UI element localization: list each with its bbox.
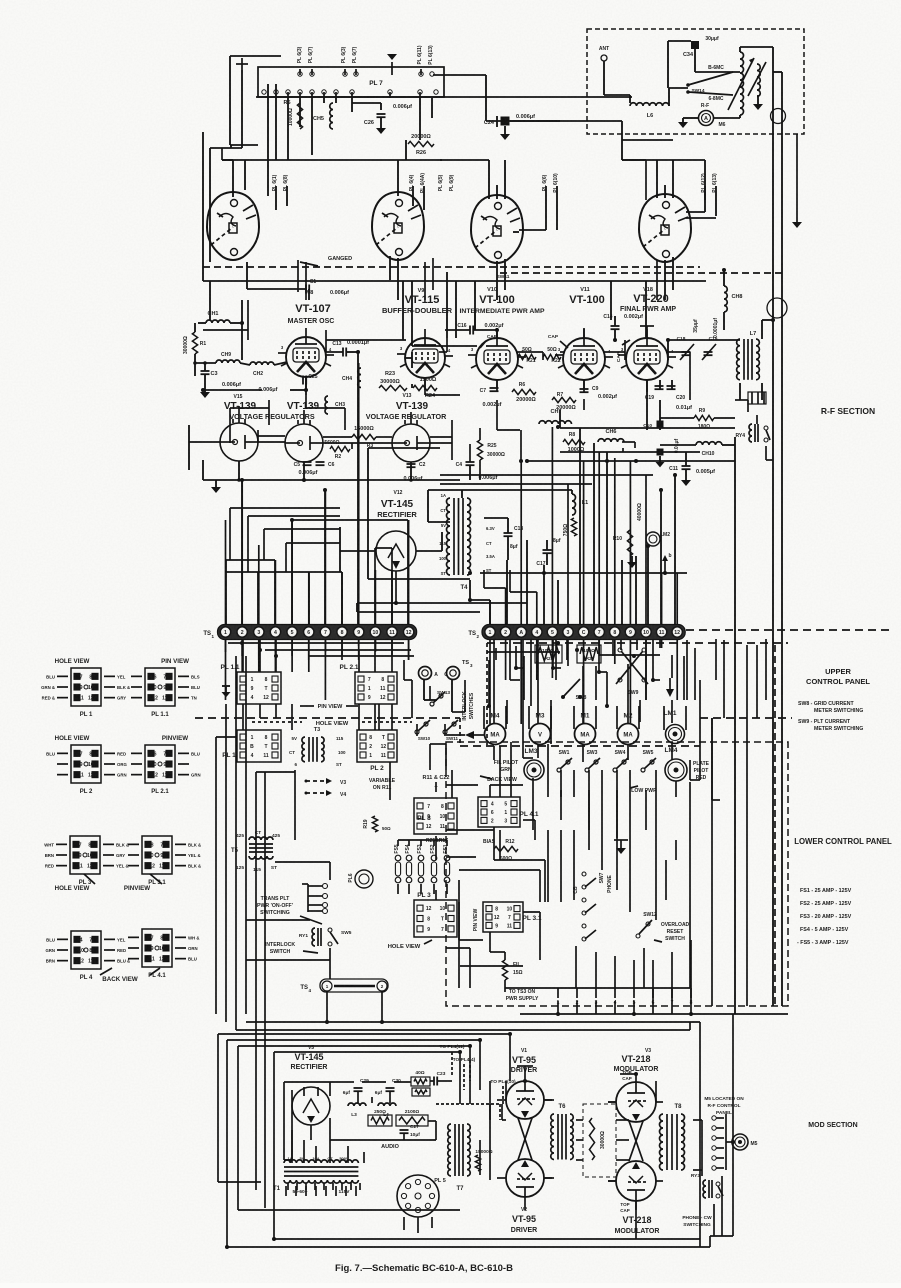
- connector PL4 back view: [71, 931, 101, 969]
- ground mid right: [627, 556, 637, 568]
- wire mod left buses: [218, 1014, 246, 1247]
- pin ticks PL7: [288, 92, 420, 98]
- label INTERLOCK SWITCH: [265, 942, 318, 955]
- wire L7 region: [668, 320, 773, 400]
- wire PL7 drops: [288, 98, 432, 160]
- pin ticks PL7 top: [300, 69, 421, 75]
- resistor R19: [372, 816, 377, 832]
- lamp LM4: [665, 759, 687, 781]
- wire horiz y572: [226, 571, 342, 573]
- tube V11 VT-100: [563, 338, 605, 380]
- wire lower panel links: [459, 812, 535, 988]
- label 0.01uf top: [676, 405, 692, 411]
- capacitor C7: [490, 387, 499, 389]
- label TOP CAP V4: [620, 1202, 630, 1213]
- label VT-95 top: [512, 1055, 536, 1065]
- resistor R12 500: [494, 846, 518, 851]
- dashed arrows V3 V4: [305, 778, 347, 798]
- wire mod t1 primary: [286, 1186, 356, 1196]
- resistor R26 20000: [408, 141, 434, 146]
- label CAP v18: [616, 340, 630, 362]
- wire bus y573: [480, 572, 687, 574]
- tube V12 VT-145: [376, 531, 416, 571]
- label TO TS3 ON PWR SUPPLY: [506, 989, 539, 1002]
- connector PL2.1 panel: [355, 672, 397, 704]
- label VOLTAGE REGULATOR: [366, 412, 447, 421]
- connector PL1 hole view: [71, 668, 101, 706]
- label 0.0001uf vertical: [713, 318, 719, 338]
- tube V18 stubs: [618, 326, 676, 392]
- meter M2: [618, 724, 639, 745]
- label VT-100 first: [479, 294, 514, 306]
- wire right mid col: [711, 718, 713, 1006]
- leader lines PL3 views: [84, 874, 162, 975]
- wire mod right bus: [710, 1014, 748, 1247]
- coil L7 tank: [737, 339, 740, 380]
- tube V1V2 hourglass: [518, 1118, 532, 1160]
- ground right coil: [753, 95, 763, 110]
- capacitor C1 0.006uf: [305, 285, 307, 294]
- resistor R13 30000: [589, 1118, 594, 1160]
- switch SW11b: [443, 730, 447, 734]
- label R-F SECTION: [821, 406, 875, 416]
- variable coupling coil: [757, 64, 760, 97]
- label HOLE VIEW dashed: [252, 721, 412, 727]
- wire C1: [247, 262, 309, 300]
- wire control left verticals: [216, 656, 265, 1208]
- resistor R9 180: [694, 415, 714, 420]
- transformer T7: [448, 1124, 451, 1176]
- wire right bus A: [772, 72, 774, 1006]
- wire long mid verticals: [507, 475, 675, 624]
- wire bus y643: [228, 643, 414, 656]
- label V1: [521, 1048, 527, 1054]
- transformer T4: [447, 498, 450, 575]
- switch SW5b: [641, 768, 645, 772]
- capacitor C24 0.006uf: [501, 117, 510, 126]
- wire rf right area: [647, 380, 735, 466]
- wire wafer4 feed: [622, 140, 673, 198]
- label V3: [645, 1048, 651, 1054]
- label PLATE PILOT RED: [693, 761, 710, 781]
- connector PL3.1 pin view: [142, 836, 172, 874]
- label V15: [234, 394, 243, 400]
- capacitor C11 0.005uf: [682, 465, 691, 467]
- wire cp net: [243, 640, 392, 672]
- junction dots 2: [240, 598, 735, 1144]
- wire rf top right: [611, 140, 673, 281]
- capacitor C16 0.002uf: [469, 326, 471, 335]
- wire TS2 feed bends: [484, 570, 537, 592]
- label V18: [643, 287, 653, 293]
- terminal TS3: [419, 667, 432, 680]
- switch SW9 cross: [618, 648, 622, 652]
- choke CH3: [325, 396, 328, 414]
- label V5: [308, 1045, 314, 1051]
- wire mod bus y1030: [236, 1022, 700, 1247]
- tube V8 stubs: [278, 345, 334, 389]
- wire bus y281 drops: [203, 132, 646, 346]
- connector PL1.1 pin view: [145, 668, 175, 706]
- label PIN VIEW PL1.1: [161, 658, 189, 665]
- label VARIABLE ON R11: [369, 778, 396, 791]
- connector PL2 panel: [357, 730, 397, 762]
- wire y97 long run: [256, 96, 632, 98]
- connector PL3 panel: [414, 900, 457, 937]
- resistor R23 30000: [379, 385, 407, 390]
- wire V12 leads: [340, 527, 442, 572]
- ground lower panel: [614, 840, 628, 854]
- wire mod horizontals: [284, 1081, 452, 1160]
- choke CH7: [539, 421, 572, 424]
- capacitor C5: [303, 461, 312, 463]
- label SW9 note: [798, 719, 863, 732]
- label INTERMEDIATE PWR AMP: [460, 308, 545, 315]
- label PL6(4) pair: [409, 173, 426, 210]
- resistor R3 15000: [352, 434, 376, 439]
- wire L6 to switch: [669, 88, 688, 106]
- wire mod left turns: [218, 1052, 710, 1247]
- panel divider dash line: [195, 717, 460, 719]
- transformer T1: [284, 1160, 358, 1163]
- transformer T6: [551, 1114, 554, 1160]
- label MODULATOR bottom: [615, 1228, 660, 1235]
- relay contacts mod: [712, 1116, 716, 1120]
- terminal strip TS2: [482, 625, 685, 640]
- capacitor C4: [466, 461, 475, 463]
- wire cp mid grid2: [243, 660, 465, 730]
- meter M3: [530, 724, 551, 745]
- transformer T8: [660, 1114, 664, 1170]
- wire C3 top: [203, 361, 207, 371]
- tube V18 VT-220: [626, 338, 668, 380]
- wire under TS2 bus: [487, 652, 660, 655]
- wire reg drop TS1: [240, 478, 244, 624]
- wire mod top feeds: [558, 1001, 691, 1014]
- arrow junction: [666, 678, 674, 697]
- ground C9b: [656, 456, 665, 467]
- label BACK VIEW PL4: [102, 976, 138, 983]
- wire meters feeds: [494, 639, 672, 724]
- wire meter area horiz: [446, 731, 484, 739]
- wire mod inner grid: [460, 1081, 629, 1160]
- label VT-220: [633, 293, 668, 305]
- capacitor C9b blk: [657, 449, 664, 456]
- wire lower panel horiz: [446, 758, 676, 902]
- label fuse list: [797, 888, 852, 946]
- wire mod top left: [218, 1034, 510, 1052]
- wire meter row feeds2: [507, 656, 684, 744]
- labels T3: [289, 736, 346, 767]
- fuse FS4: [406, 855, 412, 861]
- fuse FS1: [444, 855, 450, 861]
- meter M5: [732, 1134, 748, 1150]
- resistor R4 750: [571, 518, 576, 536]
- ground arrow top: [386, 54, 399, 75]
- capacitor C29 6uf: [354, 1087, 363, 1089]
- connector PL3.1 panel: [483, 902, 523, 932]
- label PIN VIEW center: [300, 704, 358, 710]
- tube V1 VT-95: [506, 1081, 544, 1119]
- relay RY1: [312, 928, 315, 946]
- switch SW14: [686, 83, 690, 87]
- resistor R8 1000: [563, 439, 585, 444]
- capacitor C25: [302, 376, 304, 385]
- capacitor C18 8uf: [504, 532, 513, 534]
- relay RY3: [703, 1180, 706, 1198]
- wire cp inner grid: [446, 742, 574, 960]
- label TO PL4 4: [453, 1057, 476, 1090]
- wire cp below meters: [494, 743, 672, 940]
- label V12: [394, 490, 403, 496]
- wire rf mid2: [306, 310, 584, 430]
- label INTERLOCK SWITCHES: [462, 691, 475, 721]
- tube V10 stubs: [468, 328, 526, 392]
- ground left of M6: [678, 118, 688, 128]
- ground reg bottom: [211, 480, 221, 493]
- switch SW3: [585, 768, 589, 772]
- wire bus y484: [440, 483, 592, 485]
- label HOLE VIEW PL3: [55, 885, 90, 892]
- label VT-100 second: [569, 294, 604, 306]
- label PINVIEW PL3.1: [124, 885, 150, 892]
- wire mod v5 net: [292, 1087, 352, 1140]
- label SW11: [497, 274, 510, 280]
- choke CH8: [724, 286, 727, 312]
- wire control center verticals: [295, 704, 452, 1022]
- wire under VT-107: [203, 377, 306, 395]
- wire cp lower horiz: [446, 948, 690, 988]
- capacitor C13 0.0001uf: [342, 348, 344, 357]
- connector PL1 panel: [237, 730, 281, 762]
- label BIAS R12: [483, 839, 515, 845]
- choke CH2: [250, 362, 274, 365]
- label M5 LOCATED: [704, 1096, 744, 1116]
- wire right bus C: [734, 437, 736, 1014]
- tube V9 stubs: [397, 346, 453, 390]
- fuse FS5: [395, 855, 401, 861]
- connector PL2.1 pin view: [145, 745, 175, 783]
- connector PL5 round: [397, 1175, 439, 1217]
- choke CH6b: [598, 439, 624, 442]
- wire T1 secondary risers: [292, 1130, 364, 1163]
- switch SW5 interlock: [328, 928, 332, 932]
- dashed box mod center: [583, 1104, 616, 1177]
- wire TS1 feeds: [226, 363, 409, 624]
- capacitor C10 blk: [657, 421, 664, 428]
- wire V5 box: [284, 1082, 340, 1160]
- wire left drop to wafer1: [210, 92, 242, 262]
- connector PL2 hole view: [71, 745, 101, 783]
- wire right bus B: [773, 72, 782, 1006]
- connector PL3 hole view: [70, 836, 100, 874]
- label PL6(6) pair: [519, 173, 559, 230]
- wire mod v5 box: [284, 1082, 436, 1163]
- label CAP v11: [548, 334, 568, 348]
- switch SW11 dashed: [500, 272, 782, 274]
- resistor R28 100: [535, 645, 562, 663]
- label RECTIFIER upper: [377, 510, 417, 519]
- wire bus y428: [560, 427, 735, 429]
- capacitor C9: [580, 388, 589, 390]
- capacitor C2: [407, 463, 416, 465]
- wire T4 to TS2: [470, 580, 490, 624]
- wire cp bottom fan: [558, 940, 691, 1001]
- variable coil tank: [740, 52, 744, 115]
- transformer T3: [302, 737, 305, 762]
- wire mid left band: [230, 508, 340, 572]
- label BACK VIEW panel: [480, 776, 517, 783]
- contact stack: [323, 884, 328, 889]
- switch bank phone-cw: [582, 872, 586, 876]
- coil L6: [630, 103, 669, 106]
- wire right long drops2: [757, 639, 766, 718]
- arrow b LM2: [662, 553, 672, 573]
- wire fuse tops: [398, 840, 447, 894]
- wire bus y281: [203, 280, 706, 282]
- upper panel dashed outline: [487, 642, 788, 644]
- label PL6(12) pair: [686, 173, 718, 218]
- wire C26 stub: [352, 103, 381, 110]
- wire vt139 pins: [239, 406, 411, 424]
- wire pair to wafer1: [268, 84, 276, 196]
- coil L1: [572, 494, 576, 515]
- wire wafer3 feed: [440, 116, 505, 199]
- wire wafer3 drop: [497, 232, 519, 300]
- meter M1: [575, 724, 596, 745]
- wire lower panel verticals: [523, 639, 690, 988]
- switch SW12: [636, 934, 640, 938]
- wire top-left corner: [230, 56, 281, 145]
- resistor 250 box: [368, 1115, 392, 1126]
- wire CH1: [198, 300, 244, 360]
- meter M4: [485, 724, 506, 745]
- wire wafer2 drop: [390, 256, 398, 300]
- label V10: [487, 287, 497, 293]
- ground PL11: [222, 686, 231, 697]
- tube V3 VT-218: [616, 1082, 656, 1122]
- label TO PL4 mod: [490, 1079, 516, 1104]
- wire bus y408: [230, 407, 269, 409]
- resistor R1 30000: [192, 332, 197, 354]
- wire tank to bus: [740, 47, 773, 72]
- tube V4 VT-218: [616, 1161, 656, 1201]
- ground C11: [681, 470, 691, 486]
- label VT-95 bottom: [512, 1214, 536, 1224]
- label UPPER CONTROL PANEL: [806, 667, 870, 686]
- connector PL8 panel: [414, 798, 457, 834]
- tube V3V4 hourglass: [629, 1121, 643, 1161]
- label PL6(3) vertical: [297, 46, 303, 63]
- lamp LM3: [524, 760, 544, 780]
- resistor R21 50: [518, 354, 536, 359]
- resistor R24 1500: [413, 385, 437, 390]
- capacitor C3: [201, 370, 210, 372]
- wire C13: [326, 350, 360, 624]
- label VT-139 c: [396, 401, 429, 412]
- label MODULATOR top: [614, 1066, 659, 1073]
- transformer T5: [249, 837, 273, 840]
- wire mod bus y1022: [246, 1021, 700, 1023]
- label V8: [307, 290, 314, 296]
- wire grid line: [195, 362, 287, 365]
- wire rf mid horiz: [203, 300, 690, 443]
- ground below C24: [500, 126, 510, 140]
- tube V10 VT-100: [476, 338, 518, 380]
- ganged dashed line: [203, 266, 700, 268]
- tube V13 VT-139: [392, 424, 430, 462]
- lower panel dashed outline: [446, 742, 788, 1006]
- resistor FIL 15: [502, 960, 507, 980]
- wire bus y579: [368, 578, 470, 580]
- tube V9 VT-115: [405, 338, 445, 378]
- label OVERLOAD RESET SWITCH: [654, 922, 690, 942]
- label PL6(5) pair: [438, 174, 455, 191]
- meter M6 RF ammeter: [699, 111, 714, 126]
- mod tube stubs: [497, 1066, 636, 1239]
- wire left TS1 drops: [226, 490, 408, 624]
- label LOWER CONTROL PANEL: [794, 837, 892, 846]
- terminal TS4: [334, 985, 375, 988]
- labels T1: [287, 1156, 350, 1195]
- wire bus y475: [440, 474, 653, 476]
- wire vt145 links: [376, 551, 416, 603]
- terminal numbers bottom: [557, 1000, 693, 1006]
- wire mod center col: [470, 1046, 525, 1180]
- wire horiz y560: [226, 559, 275, 561]
- lamp LM2: [646, 532, 660, 546]
- label MASTER OSC: [288, 318, 335, 325]
- fuse FS2: [431, 855, 437, 861]
- wire buffer couplings: [405, 352, 412, 388]
- capacitor C19: [655, 385, 664, 387]
- terminal strip TS1: [218, 625, 417, 640]
- label SW8 note: [798, 701, 863, 714]
- label V9: [418, 288, 425, 294]
- label VT-139 a: [224, 401, 257, 412]
- label TOP CAP V3: [622, 1070, 632, 1081]
- wire lower mid verticals: [561, 790, 676, 988]
- wire rf l7 links: [690, 380, 773, 461]
- label R25R17: [426, 838, 448, 844]
- label VT-145 mod: [294, 1052, 323, 1062]
- wire C14: [614, 316, 616, 340]
- connector PL4.1: [142, 929, 172, 967]
- wire T1 bottom ticks: [288, 1183, 360, 1190]
- label VT-139 b: [287, 401, 320, 412]
- label PL6(11) vertical: [417, 45, 434, 65]
- wire bus y461: [527, 460, 735, 462]
- label PL6(13) vertical: [341, 46, 358, 63]
- label FIL PILOT GRN: [494, 760, 519, 773]
- labels T4 small: [439, 493, 495, 576]
- wire TS1 bottom drops: [226, 640, 409, 660]
- wire C16: [445, 330, 497, 338]
- choke L4: [378, 1103, 396, 1106]
- resistor 40ohm: [411, 1077, 430, 1086]
- wire control horizontals: [216, 737, 382, 979]
- label PL6(1) pair: [272, 174, 289, 210]
- wire top bus y160: [222, 148, 442, 160]
- label V13: [403, 393, 412, 399]
- label TO PL4 11: [440, 1044, 465, 1076]
- label HOLE VIEW PL3 panel: [388, 940, 432, 950]
- label DRIVER top: [511, 1067, 537, 1074]
- wire right verticals mid: [560, 410, 607, 624]
- wire bottom terminal ticks: [558, 988, 691, 998]
- label DRIVER bottom: [511, 1227, 537, 1234]
- capacitor C17 8uf: [543, 549, 552, 551]
